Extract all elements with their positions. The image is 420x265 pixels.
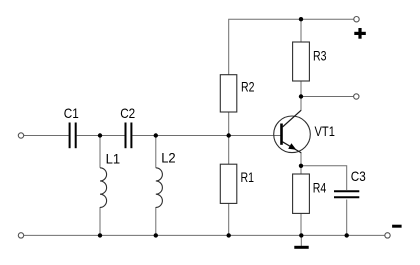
wire: between C1 and C2 (77, 135, 125, 137)
inductor L2 (156, 168, 163, 208)
node L2 bottom (154, 233, 158, 237)
svg-text:L2: L2 (161, 149, 176, 165)
wire: emitter junction to C3 top (301, 166, 347, 190)
svg-text:L1: L1 (106, 150, 121, 166)
node R1 bottom (227, 233, 231, 237)
wire: top rail dot down to R3 (300, 19, 302, 42)
wire: main signal line from input to transistor base (24, 135, 69, 137)
node L1 top (98, 133, 102, 137)
node ground junction (299, 233, 303, 237)
resistor R2 (220, 75, 237, 112)
capacitor C3 (334, 191, 359, 197)
wire: between C2 and base bar (132, 135, 280, 137)
resistor R4 (293, 174, 310, 213)
wire: emitter down to junction and R4 (300, 153, 302, 174)
wire: R1 bottom to ground rail (228, 203, 230, 235)
svg-text:VT1: VT1 (315, 123, 336, 139)
svg-text:R2: R2 (241, 78, 255, 94)
wire: R4 bottom to ground rail (300, 213, 302, 235)
resistor R3 (293, 42, 310, 81)
terminal OUT minus (385, 233, 390, 238)
node C3 bottom (345, 233, 349, 237)
node collector tap (299, 94, 303, 98)
wire: L2 branch (155, 136, 157, 168)
transistor VT1 (274, 110, 311, 153)
terminal IN top (18, 133, 23, 138)
wire: R2 bottom to main line to R1 top (228, 112, 230, 164)
wire: top supply rail (229, 19, 354, 74)
plus symbol (354, 28, 366, 39)
svg-text:R4: R4 (313, 179, 327, 195)
svg-text:R3: R3 (313, 47, 327, 63)
node L1 bottom (98, 233, 102, 237)
wire: bottom ground rail (24, 234, 385, 236)
capacitor C2 (126, 123, 132, 149)
terminal OUT plus (354, 17, 359, 22)
svg-text:C1: C1 (64, 105, 79, 121)
resistor R1 (220, 164, 237, 203)
minus symbol (392, 225, 402, 228)
terminal IN bottom (18, 233, 23, 238)
wire: C3 bottom to ground rail (346, 200, 348, 236)
capacitor C1 (70, 123, 76, 149)
terminal OUT mid (354, 94, 359, 99)
wire: middle output tap (301, 96, 354, 98)
svg-text:C3: C3 (351, 168, 366, 184)
node R2/R1 (227, 133, 231, 137)
inductor L1 (100, 168, 107, 208)
node top rail / R3 (299, 17, 303, 21)
wire: R3 bottom to collector (300, 81, 302, 110)
svg-text:C2: C2 (120, 105, 135, 121)
svg-text:R1: R1 (241, 169, 255, 185)
ground (294, 235, 308, 247)
node emitter junction (299, 164, 303, 168)
wire: L1 branch (99, 136, 101, 168)
node L2 top (154, 133, 158, 137)
